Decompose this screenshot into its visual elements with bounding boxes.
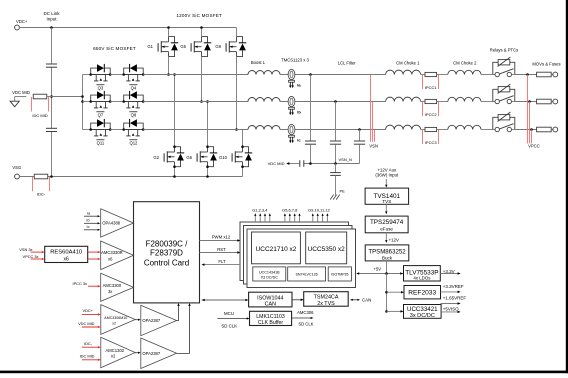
svg-text:VPCC: VPCC xyxy=(528,144,540,149)
wire VDC+ input (red) xyxy=(82,313,99,315)
gate output arrows G1-G4 xyxy=(254,215,256,222)
resistor shunt IDC MID xyxy=(33,94,47,99)
wire bus to Q3 xyxy=(83,74,91,76)
node G10 source xyxy=(241,165,244,168)
svg-text:IDC-: IDC- xyxy=(37,191,46,196)
wire Q11-Q12 link xyxy=(110,129,124,131)
capacitor LCL Ia xyxy=(305,140,316,142)
node +5V bus xyxy=(385,272,388,275)
wire eFuse to buck / label +12V xyxy=(385,233,387,241)
transistor G6 (1200V SiC bottom) xyxy=(197,147,217,167)
wire ISOW1044 to TSM24CA xyxy=(292,299,302,301)
wire phase rail mid segment (Ia) xyxy=(280,74,386,76)
wire fuse to terminal xyxy=(551,74,553,76)
resistor shunt IPCC3 xyxy=(425,127,437,131)
wire clock buffer output xyxy=(292,317,312,319)
svg-text:UCC33421: UCC33421 xyxy=(407,306,438,313)
amplifier AMC3300 3x xyxy=(101,273,134,301)
node VPCC tap 2 xyxy=(528,100,531,103)
wire phase rail mid segment (Ib) xyxy=(280,101,386,103)
transistor G1 (1200V SiC top) xyxy=(158,37,178,57)
wire Q7-Q8 link xyxy=(110,101,124,103)
svg-text:G9: G9 xyxy=(215,44,221,49)
svg-text:x6: x6 xyxy=(108,257,113,262)
wire IPCC 3x input (red) xyxy=(88,285,99,287)
block UCC14341B X3 DC/DC xyxy=(253,267,286,281)
svg-text:Q3: Q3 xyxy=(98,86,104,91)
wire G9 drain xyxy=(236,28,238,37)
wire choke1 to shunt xyxy=(421,74,425,76)
sense lines IDC MID (red) xyxy=(31,97,33,111)
svg-text:3x DC/DC: 3x DC/DC xyxy=(410,313,435,319)
svg-text:F280039C /: F280039C / xyxy=(146,240,189,249)
wire +5V rail xyxy=(358,273,403,275)
wire phase rail left segment (Ib) xyxy=(143,101,248,103)
wire Q3-Q4 link xyxy=(110,74,124,76)
svg-text:IDC-: IDC- xyxy=(84,341,93,346)
wire shunt to choke2 xyxy=(437,74,448,76)
fuse (phase 1) xyxy=(537,72,552,77)
wire LCL branch Ib lower xyxy=(335,144,337,163)
gate driver card (stacked, middle) xyxy=(244,226,353,285)
gate output arrows G9-G12 xyxy=(312,215,314,222)
transistor Q4 (650V SiC, mirrored) xyxy=(124,64,144,81)
sensor TMCS1123 (Ia) xyxy=(288,69,295,88)
wire LCL branch Ic lower xyxy=(359,144,361,163)
wire relay to fuse xyxy=(515,101,537,103)
wire phase rail left segment (Ic) xyxy=(143,129,248,131)
block TVS1401 xyxy=(365,188,409,204)
node G2 on phase rail xyxy=(173,73,176,76)
node Q11 right xyxy=(109,128,112,131)
transistor Q8 (650V SiC, mirrored) xyxy=(124,91,144,108)
svg-text:AMC3300: AMC3300 xyxy=(103,283,122,288)
wire +5V bus vertical xyxy=(386,274,388,312)
svg-text:VDC+: VDC+ xyxy=(83,308,94,313)
svg-text:VDC MID: VDC MID xyxy=(78,321,95,326)
node bus-VDCMID xyxy=(81,95,84,98)
node Q7 right xyxy=(109,100,112,103)
wire OPA2387-2 to control card xyxy=(177,305,190,353)
svg-text:G6: G6 xyxy=(186,155,192,160)
wire AMC1302 to OPA2387 xyxy=(135,352,138,354)
svg-text:VSN_N: VSN_N xyxy=(339,157,352,162)
svg-text:G5: G5 xyxy=(180,44,186,49)
wire AMC3306M10 to OPA2387 xyxy=(135,319,138,321)
svg-text:650V SiC MOSFET: 650V SiC MOSFET xyxy=(93,46,136,51)
wire 650V mid bus vertical xyxy=(82,75,84,130)
svg-text:x2: x2 xyxy=(112,322,116,326)
svg-text:+12V: +12V xyxy=(389,237,399,242)
wire G1 drain xyxy=(168,28,170,37)
block RES60A410 x6 xyxy=(45,246,88,262)
wire LCL branch Ia upper xyxy=(310,75,312,142)
svg-text:Relays & PTCs: Relays & PTCs xyxy=(490,47,518,52)
svg-text:OPA2387: OPA2387 xyxy=(142,351,161,356)
svg-text:TPS259474: TPS259474 xyxy=(370,219,404,226)
node +5V to REF2033 xyxy=(385,291,388,294)
inductor CM choke 2 (IPCC1 phase) xyxy=(448,70,481,74)
arrow +5V into TLV75533P xyxy=(400,272,403,275)
wire VDC MID to ground xyxy=(15,96,27,98)
wire bus to Q7 xyxy=(83,101,91,103)
wire G9 source xyxy=(236,57,238,130)
node G1 drain on DC+ rail xyxy=(167,26,170,29)
svg-text:x6: x6 xyxy=(64,256,70,262)
node G5 source on phase rail xyxy=(200,100,203,103)
wire TSM24CA to CAN xyxy=(351,299,359,301)
svg-text:+12V Aux: +12V Aux xyxy=(377,167,397,172)
svg-text:VPCC 3x: VPCC 3x xyxy=(23,254,39,259)
svg-text:SN74LVC126: SN74LVC126 xyxy=(295,273,317,277)
inductor CM choke 2 (IPCC3 phase) xyxy=(448,125,481,129)
terminal VSG xyxy=(15,174,20,179)
op-amp OPA4388 (current buffers) xyxy=(101,209,134,237)
svg-text:IDC MID: IDC MID xyxy=(80,354,95,359)
wire G5 drain xyxy=(201,28,203,37)
transistor Q11 (650V SiC) xyxy=(91,119,111,136)
node Q3 right xyxy=(109,73,112,76)
wire TVS to eFuse xyxy=(385,204,387,212)
wire to UCC33421 xyxy=(387,310,402,312)
amplifier AMC3306M10 x2 xyxy=(101,305,135,335)
sense lines VPCC (red) xyxy=(527,75,529,144)
node G2 on DC- rail xyxy=(173,175,176,178)
svg-text:VSN 3x: VSN 3x xyxy=(19,247,32,252)
svg-text:VDC MID: VDC MID xyxy=(12,90,30,95)
transistor Q12 (650V SiC, mirrored) xyxy=(124,119,144,136)
wire RES to AMC3330 (red, upper) xyxy=(88,251,99,253)
inductor CM choke 2 (IPCC2 phase) xyxy=(448,97,481,101)
node LCL branch Ib xyxy=(334,100,337,103)
ground VDC MID (signal ground) xyxy=(10,101,19,107)
label Q11 xyxy=(96,139,104,141)
amplifier AMC1302 x2 xyxy=(101,337,135,368)
wire PE branch xyxy=(335,164,337,173)
fuse (phase 3) xyxy=(537,127,552,132)
wire LCL branch Ib upper xyxy=(335,102,337,142)
svg-text:ISOW1044: ISOW1044 xyxy=(257,295,283,301)
node Q8 left xyxy=(122,100,125,103)
block ISOTMP35 xyxy=(328,267,351,281)
node Q7 left xyxy=(89,100,92,103)
relay and PTC (phase 3) xyxy=(493,112,515,132)
svg-text:MCU: MCU xyxy=(224,311,234,316)
terminal AC phase 2 xyxy=(553,99,558,104)
svg-text:G2: G2 xyxy=(153,155,159,160)
svg-text:F28379D: F28379D xyxy=(150,249,183,258)
block TPS259474 xyxy=(365,216,408,233)
svg-text:Ib: Ib xyxy=(297,109,301,114)
svg-text:Ic: Ic xyxy=(87,225,90,229)
wire shunt to choke2 xyxy=(437,129,448,131)
wire G1 source xyxy=(168,57,170,75)
svg-text:Boost L: Boost L xyxy=(251,60,266,65)
node Q4 left xyxy=(122,73,125,76)
node Q12 right xyxy=(142,128,145,131)
wire fuse to terminal xyxy=(551,101,553,103)
svg-text:OPA4388: OPA4388 xyxy=(102,220,121,225)
terminal VDC+ xyxy=(15,25,20,30)
block TPSM863252 xyxy=(365,245,409,261)
svg-text:VDC MID: VDC MID xyxy=(268,161,285,166)
svg-text:(36W) Input: (36W) Input xyxy=(375,173,399,178)
svg-text:+3.3VREF: +3.3VREF xyxy=(443,284,464,289)
node +5V to UCC33421 xyxy=(385,310,388,313)
svg-text:FLT: FLT xyxy=(218,259,226,264)
svg-text:TSM24CA: TSM24CA xyxy=(314,295,339,301)
sense lines IPCC1 (red) xyxy=(422,75,424,89)
wire DC link vertical xyxy=(51,28,53,65)
svg-text:CLK Buffer: CLK Buffer xyxy=(258,320,284,326)
label Q8 xyxy=(129,111,137,113)
svg-text:VDC+: VDC+ xyxy=(16,19,28,24)
capacitor LCL common to VDC MID xyxy=(299,160,301,167)
label Q4 xyxy=(129,84,137,86)
node G9 source on phase rail xyxy=(235,128,238,131)
svg-text:Buck: Buck xyxy=(382,255,393,260)
svg-text:IPCC2: IPCC2 xyxy=(425,112,438,117)
relay and PTC (phase 2) xyxy=(493,84,515,104)
terminal AC phase 1 xyxy=(553,72,558,77)
svg-text:OPA2387: OPA2387 xyxy=(142,318,161,323)
svg-text:UCC5350 x2: UCC5350 x2 xyxy=(308,246,346,253)
wire G6 drain from phase rail xyxy=(207,102,209,147)
sensor TMCS1123 (Ic) xyxy=(288,124,295,143)
label Q7 xyxy=(96,111,104,113)
transistor G5 (1200V SiC top) xyxy=(191,37,211,57)
node G2 drain xyxy=(173,145,176,148)
wire aux input arrow xyxy=(385,179,387,185)
transistor G9 (1200V SiC top) xyxy=(226,37,246,57)
inductor CM choke 1 (IPCC1 phase) xyxy=(386,70,421,74)
svg-text:IPCC1: IPCC1 xyxy=(425,85,438,90)
relay and PTC (phase 1) xyxy=(493,57,515,77)
node LCL common B xyxy=(334,162,337,165)
svg-text:MOVs & Fuses: MOVs & Fuses xyxy=(532,62,560,67)
svg-text:AMC306: AMC306 xyxy=(297,310,314,315)
node VPCC tap 1 xyxy=(526,73,529,76)
block control card F280039C/F28379D xyxy=(134,202,200,303)
wire LCL branch Ia lower xyxy=(310,144,312,163)
node Q11 left xyxy=(89,128,92,131)
svg-text:1200V SiC MOSFET: 1200V SiC MOSFET xyxy=(176,13,222,18)
svg-text:2x TVS: 2x TVS xyxy=(317,301,335,307)
block UCC21710 x2 xyxy=(252,232,301,264)
svg-text:Q8: Q8 xyxy=(131,113,137,118)
wire G2 drain from phase rail xyxy=(174,75,176,147)
inductor CM choke 1 (IPCC3 phase) xyxy=(386,125,421,129)
svg-text:CAN: CAN xyxy=(265,302,276,308)
block TLV75533P xyxy=(404,266,441,281)
wire G2 source to DC- rail xyxy=(174,167,176,177)
resistor shunt IPCC2 xyxy=(425,99,437,103)
wire IDC- input (red) xyxy=(82,346,99,348)
svg-text:UCC14341B: UCC14341B xyxy=(259,270,280,274)
wire to VDC MID reference xyxy=(288,163,300,165)
sense lines IPCC2 (red) xyxy=(422,102,424,116)
node Q12 left xyxy=(122,128,125,131)
svg-text:IDC MID: IDC MID xyxy=(32,113,47,118)
wire phase rail left segment (Ia) xyxy=(143,74,248,76)
wire LCL common node rail xyxy=(304,163,360,165)
wire bus to Q11 xyxy=(83,129,91,131)
svg-text:4x LDOs: 4x LDOs xyxy=(413,276,431,281)
node VPCC tap 3 xyxy=(530,128,533,131)
svg-text:VSN: VSN xyxy=(369,143,378,148)
svg-text:TPSM863252: TPSM863252 xyxy=(368,248,406,255)
node G10 drain xyxy=(241,145,244,148)
svg-text:X3 DC/DC: X3 DC/DC xyxy=(261,275,279,279)
node Q4 right xyxy=(142,73,145,76)
transistor G10 (1200V SiC bottom) xyxy=(232,147,252,167)
svg-text:Q7: Q7 xyxy=(98,113,104,118)
node G6 drain xyxy=(206,145,209,148)
svg-text:VSG: VSG xyxy=(12,165,21,170)
svg-text:ISOTMP35: ISOTMP35 xyxy=(331,273,348,277)
transistor Q3 (650V SiC) xyxy=(91,64,111,81)
wire buck to +5V rail xyxy=(386,261,388,274)
wire G10 drain from phase rail xyxy=(242,130,244,147)
svg-text:+5V: +5V xyxy=(374,266,382,271)
capacitor LCL Ic xyxy=(354,140,365,142)
wire relay to fuse xyxy=(515,74,537,76)
capacitor LCL Ib xyxy=(330,140,341,142)
wire DC- bottom rail xyxy=(19,176,243,178)
op-amp OPA2387 (first) xyxy=(141,305,177,335)
capacitor PE xyxy=(330,172,341,174)
svg-text:CAN: CAN xyxy=(362,298,371,303)
svg-text:SD CLK: SD CLK xyxy=(221,324,237,329)
ground PE hatch xyxy=(330,195,333,200)
amplifier AMC3330R x6 xyxy=(101,241,134,270)
node G1 source on phase rail xyxy=(167,73,170,76)
svg-text:G9,10,11,12: G9,10,11,12 xyxy=(308,208,330,213)
node G2 source xyxy=(173,165,176,168)
svg-text:TVS: TVS xyxy=(382,199,391,204)
svg-text:Q11: Q11 xyxy=(97,141,105,146)
node Q3 left xyxy=(89,73,92,76)
svg-text:PWM x12: PWM x12 xyxy=(212,235,231,240)
node LCL branch Ic xyxy=(358,128,361,131)
svg-text:Q4: Q4 xyxy=(131,86,137,91)
svg-text:AMC3306M10: AMC3306M10 xyxy=(104,316,127,320)
svg-text:AMC3330R: AMC3330R xyxy=(101,250,123,255)
svg-text:Ib: Ib xyxy=(86,219,89,223)
node G6 on DC- rail xyxy=(206,175,209,178)
wire control card to ISOW1044 (bidirectional) xyxy=(202,299,247,301)
wire MCU/SD CLK into clock buffer xyxy=(217,318,247,320)
wire VDC MID to 650V bus xyxy=(52,96,83,98)
svg-text:Control Card: Control Card xyxy=(144,259,189,268)
wire DC+ top rail xyxy=(19,27,237,29)
svg-text:TMCS1123 x 3: TMCS1123 x 3 xyxy=(281,57,309,62)
node Q8 right xyxy=(142,100,145,103)
node G5 drain on DC+ rail xyxy=(200,26,203,29)
resistor shunt IPCC1 xyxy=(425,72,437,76)
wire choke2 to relay xyxy=(481,74,493,76)
svg-text:x2: x2 xyxy=(111,353,116,358)
resistor shunt IDC- xyxy=(34,174,48,179)
svg-text:eFuse: eFuse xyxy=(380,226,393,231)
svg-text:CM Choke 2: CM Choke 2 xyxy=(453,60,477,65)
node VDC MID xyxy=(50,95,53,98)
wire VDC MID input (red) xyxy=(82,326,99,328)
wire VDC MID shunt right xyxy=(47,96,52,98)
label Q12 xyxy=(129,139,137,141)
wire G10 source to DC- rail xyxy=(242,167,244,177)
wire shunt to choke2 xyxy=(437,101,448,103)
wire fuse to terminal xyxy=(551,129,553,131)
capacitor DC link upper xyxy=(46,63,57,65)
arrow VDC MID reference xyxy=(286,162,289,165)
svg-text:PE: PE xyxy=(340,189,346,194)
svg-text:Q12: Q12 xyxy=(129,141,138,146)
svg-text:G5,6,7,8: G5,6,7,8 xyxy=(282,208,298,213)
block TSM24CA 2x TVS xyxy=(304,292,349,307)
svg-text:IPCC3: IPCC3 xyxy=(425,140,438,145)
sense lines IPCC3 (red) xyxy=(422,130,424,144)
block REF2033 xyxy=(404,286,441,299)
wire LCL branch Ic upper xyxy=(359,130,361,142)
node DC+ / DC-link junction xyxy=(50,26,53,29)
inductor Boost L (Ib phase) xyxy=(248,98,280,102)
svg-text:+1.65VREF: +1.65VREF xyxy=(443,296,467,301)
svg-text:Input: Input xyxy=(46,16,57,21)
wire G5 source xyxy=(201,57,203,102)
svg-text:RES60A410: RES60A410 xyxy=(50,250,82,256)
block ISOW1044 CAN xyxy=(249,292,292,307)
wire relay to fuse xyxy=(515,129,537,131)
svg-text:G1,2,3,4: G1,2,3,4 xyxy=(252,208,268,213)
fuse (phase 2) xyxy=(537,99,552,104)
node G6 source xyxy=(206,165,209,168)
svg-text:+5VISO: +5VISO xyxy=(443,306,459,311)
node G6 on phase rail xyxy=(206,100,209,103)
svg-text:REF2033: REF2033 xyxy=(408,290,436,297)
sensor TMCS1123 (Ib) xyxy=(288,96,295,115)
inductor CM choke 1 (IPCC2 phase) xyxy=(386,97,421,101)
svg-text:AMC1302: AMC1302 xyxy=(105,348,124,353)
wire PE branch lower xyxy=(335,175,337,195)
capacitor DC link lower xyxy=(46,127,57,129)
wire RES to AMC3330 (red, lower) xyxy=(88,258,99,260)
block UCC33421 xyxy=(404,305,442,319)
inductor Boost L (Ia phase) xyxy=(248,71,280,75)
inductor Boost L (Ic phase) xyxy=(248,126,280,130)
node DC- junction xyxy=(50,175,53,178)
arrow +5V into gate driver card xyxy=(356,272,359,275)
block UCC5350 x2 xyxy=(306,232,347,264)
svg-text:IPCC 3x: IPCC 3x xyxy=(73,281,88,286)
svg-text:SD CLK: SD CLK xyxy=(298,322,313,327)
svg-text:LMK1C1103: LMK1C1103 xyxy=(256,314,285,320)
transistor Q7 (650V SiC) xyxy=(91,91,111,108)
wire G6 source to DC- rail xyxy=(207,167,209,177)
wire VPCC 3x input (red) xyxy=(31,258,43,260)
wire choke2 to relay xyxy=(481,129,493,131)
gate output arrows G5-G8 xyxy=(284,215,286,222)
svg-text:CM Choke 1: CM Choke 1 xyxy=(396,60,420,65)
svg-text:G1: G1 xyxy=(147,44,153,49)
transistor G2 (1200V SiC bottom) xyxy=(164,147,184,167)
op-amp OPA2387 (second) xyxy=(141,338,177,369)
sense lines IDC- (red) xyxy=(32,177,34,191)
svg-text:DC Link: DC Link xyxy=(43,11,60,16)
wire phase rail mid segment (Ic) xyxy=(280,129,386,131)
sense lines VSN (red) xyxy=(370,75,372,142)
svg-text:G10: G10 xyxy=(219,155,228,160)
